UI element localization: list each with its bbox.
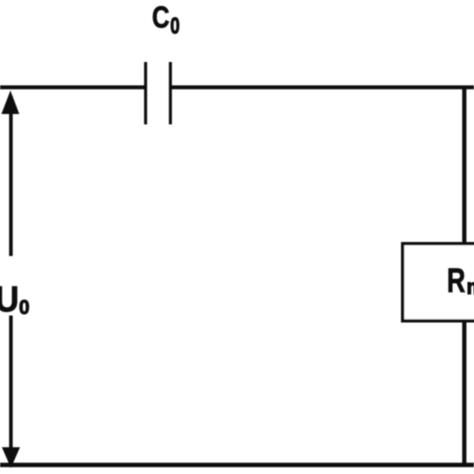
voltage arrow U0 upper line segment (9, 96, 13, 256)
capacitor C0 left plate (144, 62, 147, 124)
voltage arrow U0 lower line segment (9, 316, 13, 451)
arrowhead down (U0 bottom) (2, 447, 20, 468)
wire capacitor to top-right corner (170, 85, 474, 89)
svg-text:m: m (467, 276, 474, 299)
wire right lower segment (462, 321, 466, 465)
svg-text:U: U (0, 279, 19, 320)
svg-text:0: 0 (170, 13, 180, 39)
svg-text:R: R (447, 262, 466, 300)
resistor Rm box (403, 244, 474, 321)
arrowhead up (U0 top) (1, 91, 19, 115)
svg-text:C: C (152, 0, 170, 34)
wire top-left to capacitor (0, 85, 146, 89)
wire right upper segment (462, 87, 466, 244)
capacitor C0 right plate (169, 62, 172, 124)
svg-text:0: 0 (19, 296, 30, 319)
wire bottom (0, 463, 474, 467)
